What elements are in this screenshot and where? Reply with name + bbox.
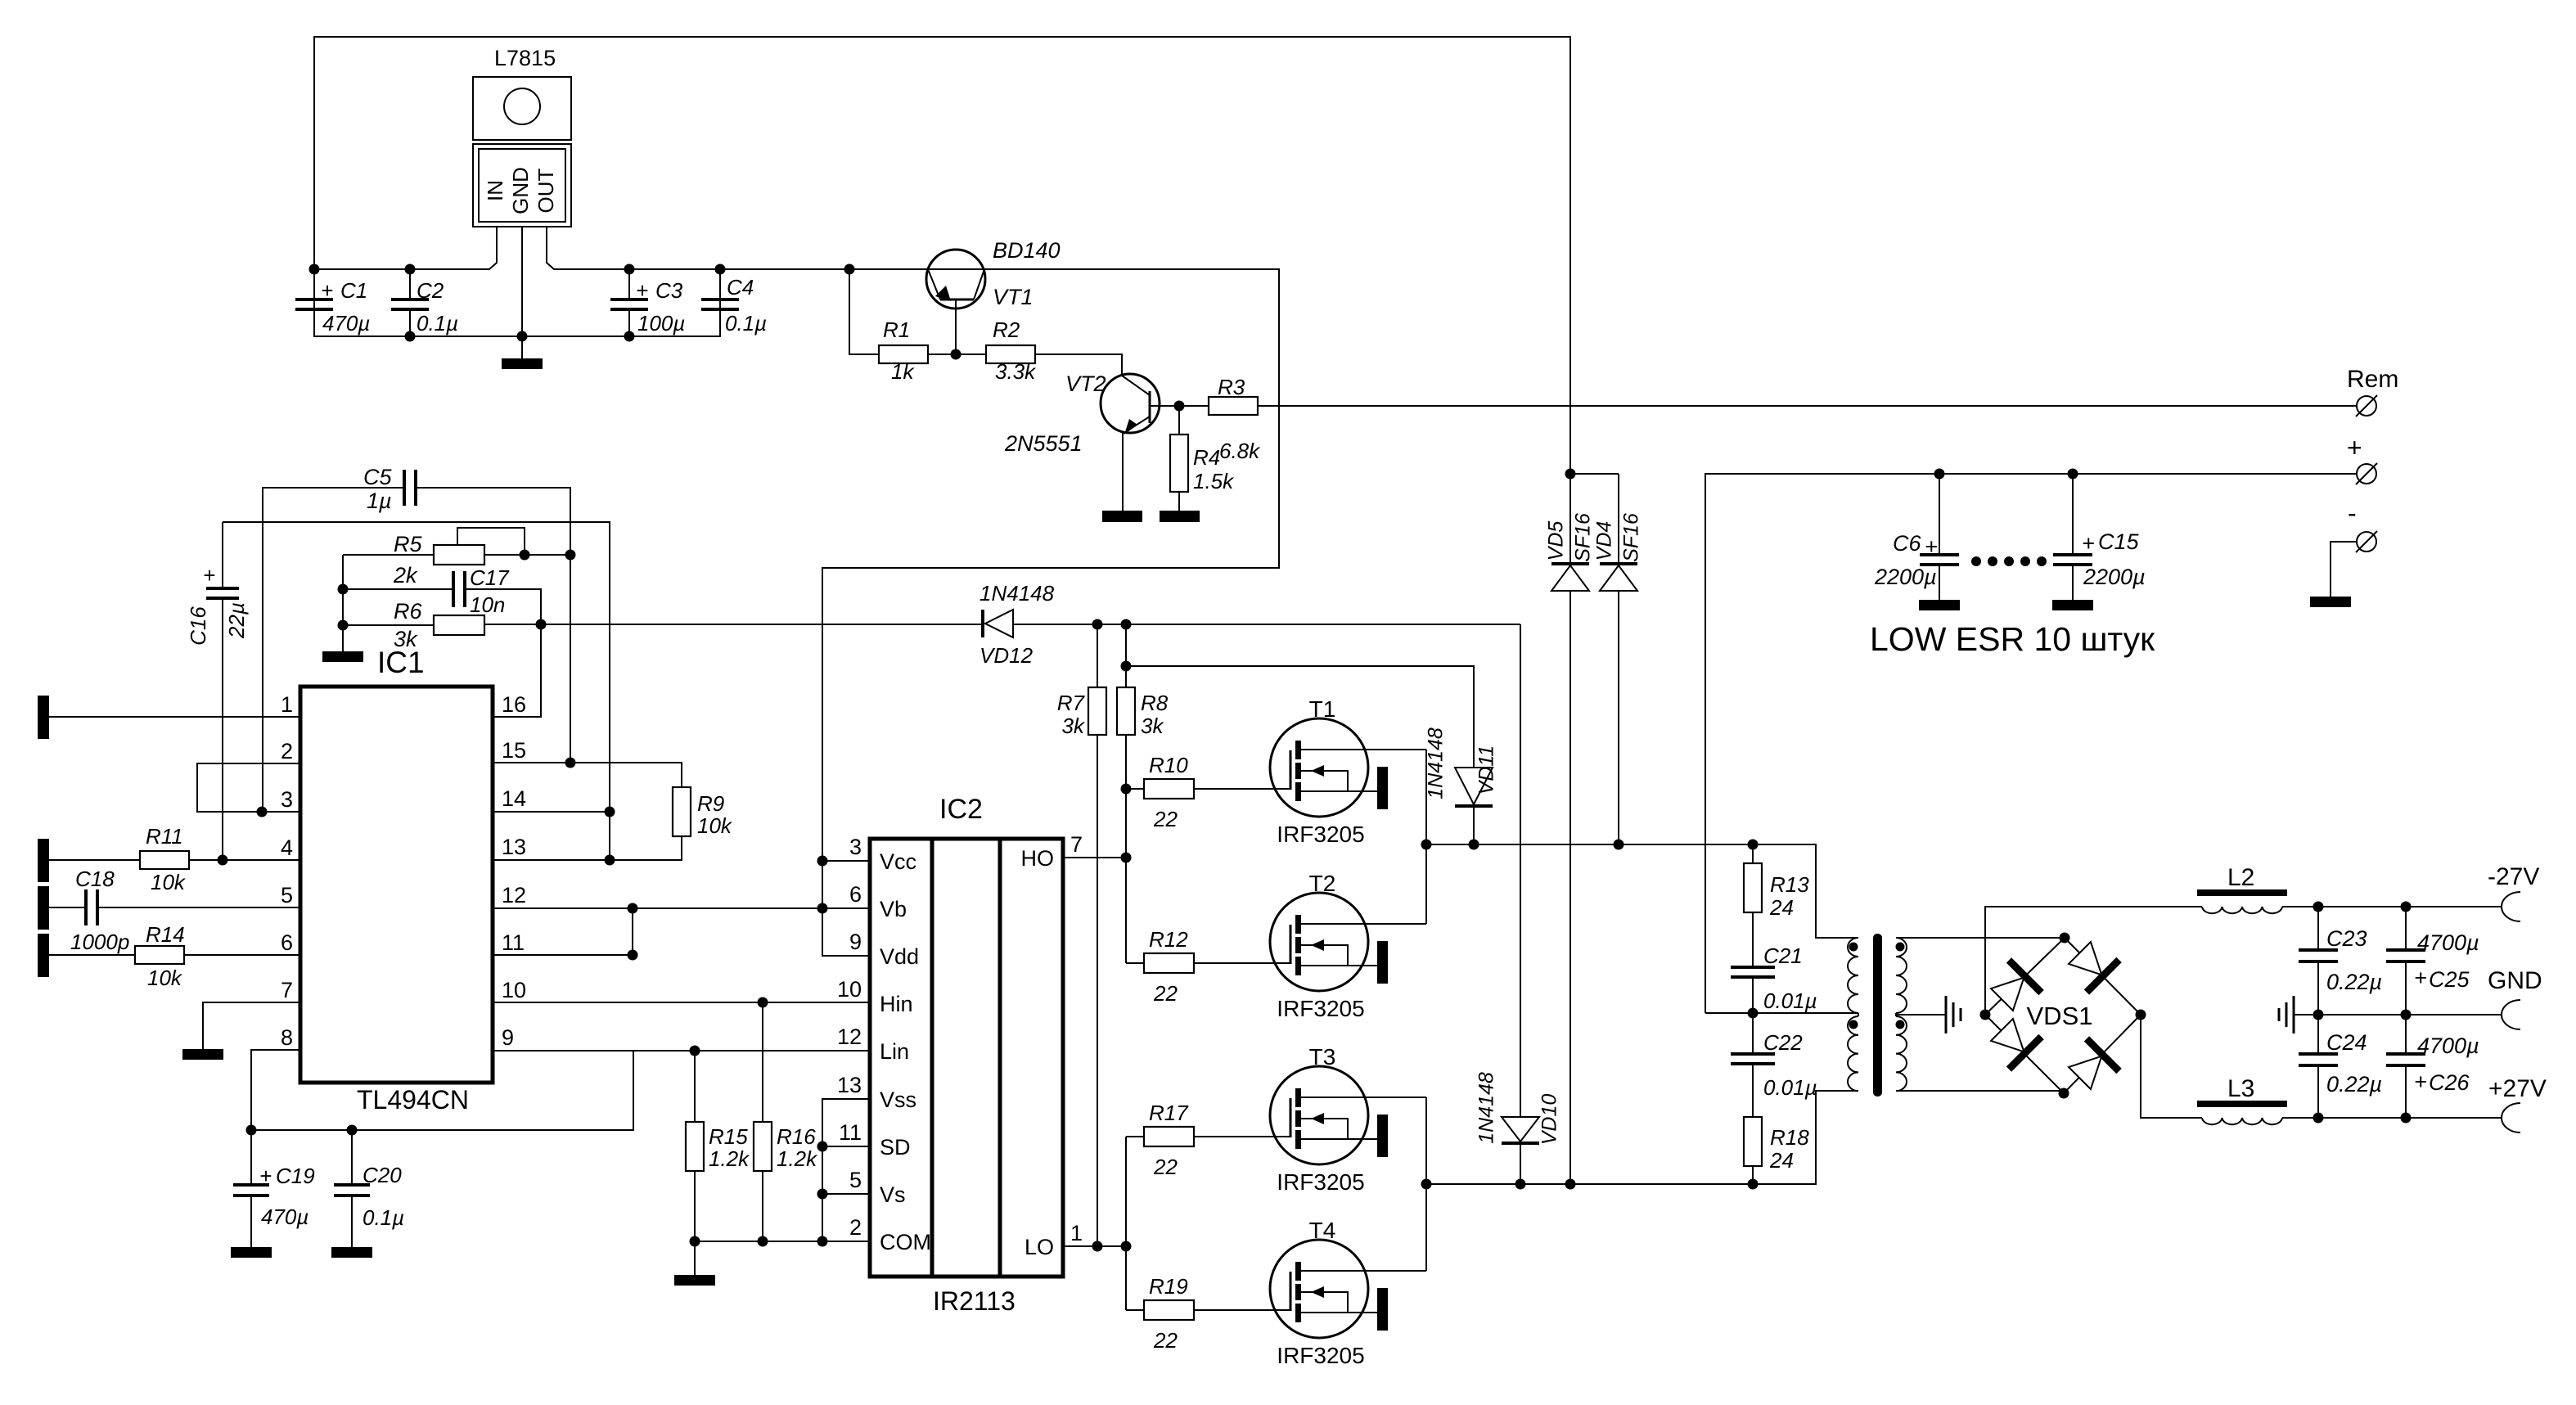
bridge diode left-top — [1986, 960, 2042, 1015]
resistor R10 22 — [1144, 753, 1290, 831]
svg-text:0.22µ: 0.22µ — [2326, 970, 2382, 994]
svg-text:IN: IN — [483, 180, 507, 201]
dots between C6 and C15 — [1971, 556, 1981, 566]
resistor R18 24 — [1744, 1117, 1809, 1190]
capacitor C15 2200u — [2053, 469, 2146, 601]
wire HO pin — [1063, 857, 1126, 858]
svg-text:C5: C5 — [363, 465, 392, 489]
svg-text:100µ: 100µ — [637, 311, 685, 335]
ground at secondary centre tap — [1946, 996, 1961, 1033]
phase dot primary upper — [1849, 943, 1858, 952]
resistor R12 22 — [1144, 927, 1290, 1006]
svg-text:VD10: VD10 — [1538, 1094, 1561, 1146]
ground under VT2 — [1102, 511, 1142, 522]
svg-text:C3: C3 — [655, 278, 683, 303]
phase dot secondary lower — [1896, 1020, 1905, 1029]
svg-text:C4: C4 — [727, 275, 754, 299]
wire IC1 pin12 to IC2 Vb — [493, 907, 870, 909]
capacitor C17 10n — [338, 565, 542, 624]
svg-text:+: + — [321, 278, 333, 303]
wire Vdd jog — [822, 955, 870, 957]
svg-text:4: 4 — [281, 835, 293, 860]
svg-text:3k: 3k — [394, 627, 418, 651]
wire pin14 — [493, 811, 610, 813]
wire R6 output / VD12 net — [484, 624, 983, 625]
svg-text:Vdd: Vdd — [880, 944, 919, 969]
wire secondary centre tap to ground — [1896, 1013, 1946, 1016]
wire LO pin — [1063, 1245, 1126, 1247]
svg-text:1.5k: 1.5k — [1193, 469, 1235, 493]
transistor T3 IRF3205 (N-MOSFET) — [1270, 1044, 1426, 1195]
svg-text:SD: SD — [880, 1135, 911, 1160]
wire pin16 up to R6 net — [493, 624, 541, 717]
ground at R5/R6/C17 — [322, 651, 363, 662]
node VD4 on drain rail — [1614, 840, 1624, 850]
capacitor C5 1u — [263, 465, 570, 812]
transistor T2 IRF3205 (N-MOSFET) — [1270, 871, 1426, 1021]
svg-text:LO: LO — [1025, 1235, 1054, 1259]
resistor R8 3k — [1117, 624, 1169, 963]
resistor R1 1k — [879, 317, 928, 384]
svg-text:R18: R18 — [1770, 1125, 1809, 1150]
svg-text:C24: C24 — [2326, 1030, 2367, 1055]
svg-text:-27V: -27V — [2488, 863, 2539, 890]
svg-text:4700µ: 4700µ — [2417, 930, 2479, 955]
resistor R2 3.3k — [986, 317, 1037, 384]
svg-text:2200µ: 2200µ — [1874, 565, 1937, 589]
svg-text:R16: R16 — [777, 1124, 816, 1149]
IC IC2 IR2113 — [870, 794, 1063, 1316]
resistor R19 22 — [1144, 1274, 1290, 1353]
svg-text:+: + — [1925, 534, 1938, 559]
svg-text:R9: R9 — [697, 791, 724, 816]
svg-text:6.8k: 6.8k — [1219, 439, 1261, 463]
capacitor C1 — [295, 269, 370, 336]
transformer TR1 primary winding lower — [1848, 1016, 1858, 1091]
wire VT2 base node — [1179, 405, 1209, 407]
svg-text:5: 5 — [849, 1168, 862, 1192]
svg-text:13: 13 — [502, 835, 526, 859]
wire primary centre tap — [1705, 1013, 1858, 1016]
ground at minus terminal — [2310, 597, 2351, 607]
svg-text:2N5551: 2N5551 — [1004, 431, 1083, 456]
wire +27V rail — [2282, 1117, 2502, 1119]
svg-text:1µ: 1µ — [367, 489, 392, 513]
svg-text:C25: C25 — [2429, 967, 2470, 992]
svg-text:1.2k: 1.2k — [777, 1146, 818, 1171]
node bridge bottom — [2059, 1088, 2069, 1099]
wire L7815 OUT pin — [547, 227, 1279, 956]
wire IC1 pin10 to Hin — [493, 1002, 870, 1003]
svg-text:+: + — [636, 278, 648, 303]
wire R3 to Rem terminal — [1258, 405, 2357, 407]
transformer TR1 secondary winding lower — [1896, 1016, 1907, 1091]
svg-text:C23: C23 — [2326, 926, 2367, 951]
svg-text:13: 13 — [837, 1073, 862, 1097]
wire R8/HO node to R10 — [1126, 788, 1144, 790]
svg-text:+: + — [2347, 433, 2362, 462]
svg-text:Lin: Lin — [880, 1039, 909, 1064]
svg-text:10k: 10k — [147, 966, 183, 990]
svg-text:6: 6 — [849, 882, 862, 907]
svg-text:3: 3 — [281, 787, 293, 812]
phase dot secondary upper — [1896, 943, 1905, 952]
transformer core — [1873, 934, 1882, 1097]
svg-text:L2: L2 — [2227, 864, 2254, 891]
wire Vss/SD/Vs tie — [822, 1099, 870, 1241]
svg-text:Vs: Vs — [880, 1182, 906, 1207]
node bridge right — [2136, 1010, 2146, 1020]
svg-text:IRF3205: IRF3205 — [1277, 1343, 1364, 1368]
wire pin15 to R9 — [493, 763, 682, 787]
svg-text:IRF3205: IRF3205 — [1277, 822, 1364, 847]
wire secondary bottom to bridge — [1896, 1090, 2064, 1092]
svg-text:1N4148: 1N4148 — [1425, 727, 1448, 799]
wire pin2 to pin3 loop — [197, 763, 300, 812]
svg-text:10k: 10k — [151, 870, 187, 894]
bridge diode top-right — [2064, 937, 2119, 993]
resistor R15 1.2k — [686, 1051, 750, 1241]
svg-text:R2: R2 — [993, 317, 1020, 342]
svg-text:R15: R15 — [709, 1124, 748, 1149]
svg-text:R14: R14 — [146, 922, 185, 947]
node bridge top — [2060, 933, 2070, 943]
svg-text:R17: R17 — [1149, 1101, 1189, 1125]
svg-text:GND: GND — [508, 167, 533, 214]
wire bottom cap rail — [314, 269, 720, 336]
svg-text:C20: C20 — [363, 1163, 402, 1187]
capacitor C19 470u — [233, 1130, 315, 1247]
capacitor C2 — [391, 269, 458, 336]
wire plus supply rail — [1705, 474, 2357, 1013]
svg-text:C21: C21 — [1763, 943, 1803, 968]
svg-text:16: 16 — [502, 692, 526, 717]
resistor R9 10k — [673, 787, 733, 838]
svg-text:-: - — [2348, 498, 2357, 528]
wire low-side drain rail — [1426, 1091, 1858, 1184]
svg-text:0.1µ: 0.1µ — [363, 1205, 404, 1230]
wire pin1 — [49, 716, 300, 718]
svg-text:C22: C22 — [1763, 1030, 1803, 1055]
svg-text:+: + — [2414, 1070, 2427, 1094]
wire LO vertical to R17 — [1126, 1136, 1144, 1137]
svg-text:SF16: SF16 — [1620, 513, 1643, 562]
svg-text:0.1µ: 0.1µ — [417, 311, 458, 335]
svg-text:14: 14 — [502, 786, 526, 811]
svg-text:8: 8 — [281, 1025, 293, 1050]
wire IC1 pin9 to Lin — [493, 1050, 870, 1051]
wire Vcc pin — [822, 860, 870, 862]
regulator U L7815 — [473, 46, 571, 227]
capacitor C6 2200u — [1874, 469, 1959, 601]
ground output rail symbol — [2279, 996, 2294, 1033]
svg-text:COM: COM — [880, 1230, 931, 1254]
wire LO to R17/R19 — [1125, 1137, 1127, 1310]
ground at COM — [694, 1241, 696, 1275]
diode VD12 1N4148 — [980, 581, 1520, 668]
svg-text:10: 10 — [502, 978, 526, 1002]
terminal Rem — [2347, 366, 2398, 417]
svg-text:C1: C1 — [340, 278, 367, 303]
wire minus terminal to ground — [2331, 542, 2357, 597]
svg-text:22: 22 — [1153, 981, 1178, 1006]
svg-text:C18: C18 — [75, 867, 115, 891]
svg-text:GND: GND — [2488, 967, 2542, 994]
svg-text:3k: 3k — [1062, 714, 1086, 738]
node C21/C22 centre tap — [1748, 1008, 1759, 1019]
wire top supply rail — [314, 37, 1570, 474]
diode VD10 1N4148 — [1475, 624, 1561, 1190]
svg-text:R3: R3 — [1218, 375, 1245, 399]
resistor R4 1.5k — [1170, 406, 1235, 511]
svg-text:470µ: 470µ — [261, 1205, 308, 1229]
svg-text:R8: R8 — [1141, 691, 1169, 715]
svg-text:R6: R6 — [394, 599, 422, 624]
svg-text:22: 22 — [1153, 807, 1178, 831]
svg-text:6: 6 — [281, 930, 293, 955]
capacitor C3 — [610, 269, 685, 336]
svg-text:1N4148: 1N4148 — [980, 581, 1055, 606]
node VD5 on low rail — [1565, 1179, 1576, 1190]
svg-text:1.2k: 1.2k — [709, 1146, 750, 1171]
svg-text:VD4: VD4 — [1593, 521, 1616, 561]
svg-text:2200µ: 2200µ — [2083, 565, 2146, 589]
svg-text:24: 24 — [1769, 1148, 1794, 1173]
wire high-side drain rail — [1426, 844, 1858, 938]
wire pin8 to C19/C20 rail — [251, 1050, 633, 1130]
ground under C19 — [231, 1247, 272, 1258]
phase dot primary lower — [1849, 1020, 1858, 1029]
svg-text:1: 1 — [281, 692, 293, 717]
terminal + — [2347, 433, 2377, 484]
svg-text:470µ: 470µ — [322, 311, 370, 335]
resistor R17 22 — [1144, 1101, 1290, 1179]
svg-text:0.22µ: 0.22µ — [2326, 1072, 2382, 1097]
resistor R6 3k — [338, 599, 485, 651]
node bridge left — [1980, 1010, 1991, 1020]
svg-text:7: 7 — [281, 978, 293, 1002]
svg-text:24: 24 — [1769, 895, 1794, 920]
wire HO vertical to R12 — [1126, 962, 1144, 964]
svg-text:TL494CN: TL494CN — [357, 1085, 469, 1115]
wire R2 to VT2 collector — [1035, 354, 1122, 376]
diode VD4 SF16 — [1593, 474, 1643, 844]
svg-text:L7815: L7815 — [494, 46, 556, 70]
svg-text:VT2: VT2 — [1065, 372, 1106, 396]
resistor R7 3k — [1057, 624, 1106, 1246]
svg-text:15: 15 — [502, 738, 526, 763]
transistor VT1 BD140 (PNP) — [926, 238, 1061, 354]
svg-text:OUT: OUT — [534, 168, 558, 213]
svg-text:T4: T4 — [1309, 1218, 1336, 1243]
resistor R11 10k — [49, 824, 300, 894]
svg-text:1N4148: 1N4148 — [1475, 1072, 1498, 1144]
wire C16 rail — [223, 522, 610, 860]
svg-text:T2: T2 — [1309, 871, 1336, 896]
transistor T4 IRF3205 (N-MOSFET) — [1270, 1218, 1426, 1368]
bridge diode left-bottom — [1986, 1014, 2042, 1070]
transformer TR1 primary winding upper — [1848, 938, 1858, 1013]
svg-text:3: 3 — [849, 835, 862, 859]
capacitor C25 4700u — [2386, 907, 2479, 1015]
resistor R14 10k — [49, 922, 300, 990]
svg-text:9: 9 — [502, 1025, 514, 1050]
svg-text:+: + — [203, 563, 215, 588]
svg-text:+: + — [2414, 966, 2427, 990]
svg-text:VD12: VD12 — [980, 643, 1034, 668]
wire R1 branch — [849, 269, 879, 354]
capacitor C4 — [701, 269, 767, 336]
resistor R13 24 — [1744, 840, 1809, 921]
svg-text:12: 12 — [837, 1024, 862, 1049]
svg-text:VD11: VD11 — [1475, 745, 1498, 795]
svg-text:11: 11 — [839, 1120, 862, 1145]
svg-text:4700µ: 4700µ — [2417, 1033, 2479, 1058]
wire T1/T2 drains join — [1425, 750, 1427, 924]
capacitor C24 0.22u — [2299, 1015, 2382, 1118]
inductor L3 — [2197, 1075, 2287, 1124]
wire GND rail — [2294, 1014, 2502, 1015]
resistor R16 1.2k — [754, 1002, 818, 1241]
transformer TR1 secondary winding upper — [1896, 938, 1907, 1013]
svg-text:3.3k: 3.3k — [995, 359, 1037, 384]
svg-text:+: + — [2082, 531, 2095, 556]
wire IC1 pin11 tie — [493, 908, 633, 955]
svg-text:1: 1 — [1070, 1221, 1083, 1245]
ground at pin7 — [182, 1049, 223, 1060]
potentiometer R5 2k — [343, 528, 576, 588]
svg-text:Vss: Vss — [880, 1088, 916, 1112]
svg-text:T3: T3 — [1309, 1044, 1336, 1070]
svg-text:1000p: 1000p — [70, 930, 129, 954]
svg-text:22: 22 — [1153, 1328, 1178, 1353]
wire T3/T4 drains join — [1425, 1097, 1427, 1271]
terminal stub pin1 — [38, 696, 49, 739]
svg-text:0.01µ: 0.01µ — [1763, 1075, 1817, 1100]
svg-text:1k: 1k — [891, 359, 915, 384]
svg-text:11: 11 — [502, 930, 525, 955]
connector +27V — [2502, 1103, 2520, 1133]
diode VD5 SF16 — [1545, 474, 1595, 1184]
ground under C15 — [2052, 600, 2093, 610]
svg-text:C16: C16 — [186, 606, 210, 646]
svg-text:5: 5 — [281, 883, 293, 907]
svg-text:22: 22 — [1153, 1155, 1178, 1179]
terminal - — [2348, 498, 2377, 552]
bridge rectifier VDS1 — [1985, 938, 2141, 1093]
svg-text:R19: R19 — [1149, 1274, 1188, 1299]
capacitor C16 22u — [186, 522, 249, 866]
svg-text:C2: C2 — [417, 278, 444, 303]
wire L7815 GND pin — [521, 227, 523, 336]
svg-text:Vb: Vb — [880, 897, 907, 921]
wire VD5/VD4 link — [1570, 473, 1619, 475]
svg-text:2k: 2k — [393, 563, 418, 588]
wire COM rail — [695, 1241, 870, 1242]
svg-text:R5: R5 — [394, 532, 422, 556]
wire bridge plus to L3 — [2141, 1015, 2202, 1118]
wire secondary top to bridge — [1896, 937, 2065, 939]
wire R5/R6/C17 ground leg — [342, 555, 344, 651]
svg-text:R11: R11 — [146, 824, 183, 849]
terminal stub pin5 — [38, 886, 49, 930]
wire pin7 to ground — [203, 1002, 300, 1049]
svg-text:10: 10 — [837, 977, 862, 1002]
svg-text:VDS1: VDS1 — [2027, 1002, 2093, 1030]
svg-text:2: 2 — [849, 1215, 862, 1240]
node dots on cap rails — [309, 264, 320, 275]
svg-text:0.1µ: 0.1µ — [725, 311, 767, 335]
svg-text:LOW ESR 10 штук: LOW ESR 10 штук — [1870, 620, 2155, 658]
svg-text:C19: C19 — [276, 1164, 315, 1188]
svg-text:IR2113: IR2113 — [933, 1286, 1016, 1316]
capacitor C26 4700u — [2386, 1015, 2479, 1118]
svg-text:VD5: VD5 — [1545, 521, 1568, 561]
svg-text:VT1: VT1 — [993, 285, 1034, 309]
svg-text:R7: R7 — [1057, 691, 1086, 715]
svg-text:IRF3205: IRF3205 — [1277, 996, 1364, 1021]
wire -27V rail — [2282, 906, 2502, 907]
svg-text:C17: C17 — [470, 565, 510, 590]
diode VD11 1N4148 — [1121, 661, 1498, 850]
svg-text:0.01µ: 0.01µ — [1763, 988, 1817, 1013]
svg-text:10n: 10n — [470, 592, 505, 617]
connector -27V — [2502, 892, 2520, 921]
svg-text:12: 12 — [502, 883, 526, 907]
svg-text:Rem: Rem — [2347, 366, 2398, 393]
svg-text:T1: T1 — [1309, 696, 1336, 722]
resistor R3 6.8k — [1209, 375, 1261, 463]
inductor L2 — [2197, 864, 2287, 913]
svg-text:R13: R13 — [1770, 872, 1809, 897]
wire R9 bottom to pin13 — [493, 836, 682, 860]
svg-text:R4: R4 — [1193, 445, 1220, 470]
svg-text:IC2: IC2 — [939, 794, 983, 825]
ground under C6 — [1919, 600, 1960, 610]
ground under R4 — [1160, 511, 1200, 522]
wire bridge minus to L2 — [1985, 907, 2202, 1015]
capacitor C21 0.01u — [1731, 912, 1817, 1013]
svg-text:R10: R10 — [1149, 753, 1188, 777]
svg-text:L3: L3 — [2227, 1075, 2254, 1102]
IC IC1 TL494CN — [300, 646, 493, 1115]
wire LO vertical to R19 — [1126, 1309, 1144, 1311]
transistor VT2 2N5551 (NPN) — [1004, 372, 1179, 511]
svg-text:BD140: BD140 — [993, 238, 1061, 263]
svg-text:R12: R12 — [1149, 927, 1188, 952]
svg-text:Hin: Hin — [880, 992, 913, 1016]
ground under C20 — [331, 1247, 372, 1258]
svg-text:+: + — [259, 1164, 272, 1188]
svg-text:22µ: 22µ — [224, 602, 249, 639]
wire L7815 IN pin — [314, 227, 497, 269]
svg-text:SF16: SF16 — [1572, 513, 1595, 562]
terminal stub pin4 — [38, 839, 49, 882]
svg-text:IRF3205: IRF3205 — [1277, 1169, 1364, 1195]
svg-text:10k: 10k — [697, 813, 733, 838]
svg-text:C26: C26 — [2429, 1070, 2470, 1095]
svg-text:7: 7 — [1070, 832, 1083, 857]
connector GND — [2502, 1000, 2520, 1029]
svg-text:C6: C6 — [1893, 531, 1921, 556]
capacitor C18 1000p — [49, 867, 300, 954]
svg-text:Vcc: Vcc — [880, 849, 916, 874]
svg-text:C15: C15 — [2098, 529, 2140, 554]
capacitor C20 0.1u — [334, 1130, 404, 1247]
bridge diode bottom-right — [2064, 1038, 2119, 1094]
svg-text:R1: R1 — [883, 317, 910, 342]
svg-text:+27V: +27V — [2488, 1075, 2547, 1102]
